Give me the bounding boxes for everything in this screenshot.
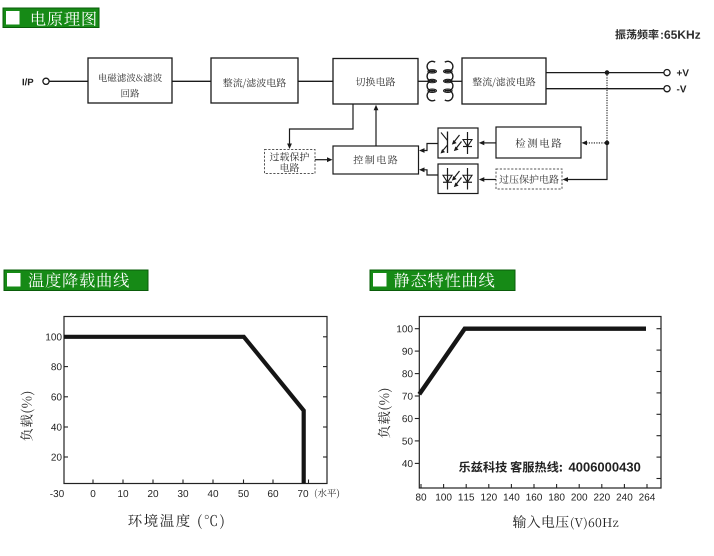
section header: 温度降载曲线 (derating curve)	[4, 270, 148, 291]
block: detection circuit 检测电路	[496, 127, 581, 158]
chart2 y-axis title 负载(%)	[378, 389, 392, 438]
section header: 静态特性曲线 (static characteristic curve)	[370, 270, 515, 291]
chart2 x-axis ticks and labels	[416, 484, 655, 501]
wire: rectifier to switching circuit	[298, 80, 333, 82]
wire: dotted sense line from +V junction down	[606, 75, 608, 143]
wire: optocoupler U1 to control circuit (arrow)	[419, 144, 438, 153]
chart2 plot frame	[419, 317, 661, 489]
junction on +V line	[605, 70, 610, 75]
chart1 x-axis title 环境温度 (℃)	[128, 514, 223, 529]
wire: switching circuit down to overload protection (arrow)	[287, 104, 353, 149]
wire: EMI filter to rectifier/filter	[172, 80, 211, 82]
wire: overload protection to control circuit (arrow)	[315, 157, 333, 162]
section header: 电原理图 (power schematic)	[3, 8, 99, 28]
optocoupler U2 (bottom)	[438, 164, 478, 194]
junction on sense line	[605, 141, 610, 146]
node +V output terminal	[664, 69, 689, 76]
block: EMI filter 电磁滤波&滤波回路	[88, 58, 172, 103]
optocoupler U1 (top)	[438, 128, 478, 158]
transformer T1	[427, 61, 453, 101]
node -V output terminal	[664, 86, 687, 93]
wire: sense line down to overvoltage protection (arrow)	[563, 143, 608, 182]
watermark: 乐兹科技 客服热线: 4006000430	[459, 461, 640, 473]
block: control circuit 控制电路	[333, 146, 419, 174]
wire: -V output line	[546, 88, 664, 90]
wire: input to EMI filter	[49, 80, 88, 82]
wire: +V output line	[546, 72, 664, 74]
wire: switching circuit to transformer primary	[418, 80, 429, 82]
chart2 x-axis title 输入电压(V)60Hz	[513, 515, 619, 530]
block: rectifier/filter 整流/滤波电路 (output side)	[462, 58, 546, 104]
chart1 derating curve	[64, 337, 304, 483]
wire: overvoltage protection to optocoupler U2 (arrow)	[479, 177, 496, 182]
chart1 y-axis title 负载(%)	[20, 392, 34, 441]
block: switching circuit 切换电路	[333, 59, 418, 105]
block: overload protection 过载保护电路 (dotted)	[265, 150, 316, 174]
wire: optocoupler U2 to control circuit (arrow)	[419, 167, 438, 175]
chart1 y-axis ticks and labels	[46, 333, 327, 460]
chart2 characteristic curve	[419, 329, 646, 395]
chart1 label (水平)	[315, 489, 339, 499]
node I/P input terminal	[23, 78, 50, 85]
block: overvoltage protection 过压保护电路 (dotted)	[496, 169, 562, 189]
note: 振荡频率:65KHz (oscillation frequency)	[615, 29, 700, 39]
wire: control circuit up to switching circuit (arrow)	[374, 105, 379, 146]
chart1 x-axis ticks and labels	[50, 480, 308, 498]
chart2 y-axis ticks and labels	[397, 325, 661, 478]
block: rectifier/filter 整流/滤波电路 (input side)	[211, 58, 298, 103]
wire: dotted sense line into detection circuit (arrow)	[582, 141, 606, 146]
wire: transformer secondary to output rectifier	[451, 80, 462, 82]
wire: detection circuit to optocoupler U1 (arrow)	[479, 141, 496, 146]
chart1 plot frame	[64, 317, 327, 484]
